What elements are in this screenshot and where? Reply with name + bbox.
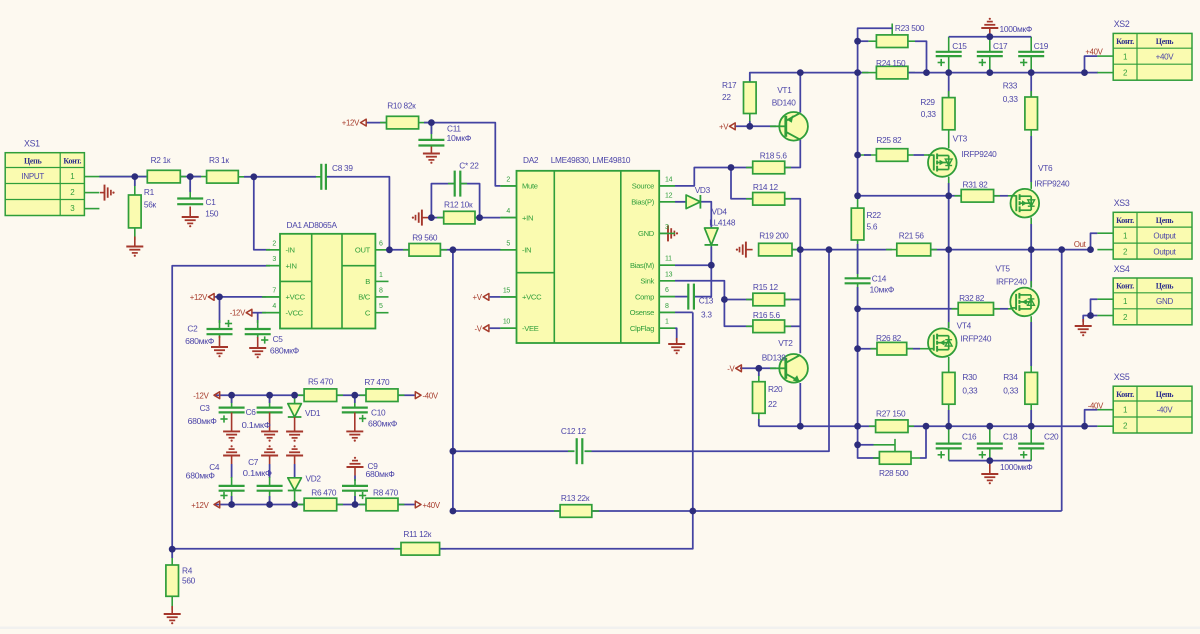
svg-text:VD1: VD1 <box>305 408 321 418</box>
svg-text:+V: +V <box>719 122 729 131</box>
svg-text:IRFP240: IRFP240 <box>996 277 1027 287</box>
svg-text:BD140: BD140 <box>772 97 797 107</box>
svg-text:R16 5.6: R16 5.6 <box>753 310 781 320</box>
svg-text:R7 470: R7 470 <box>364 377 390 387</box>
svg-text:3: 3 <box>272 256 276 263</box>
svg-text:R19 200: R19 200 <box>759 230 789 240</box>
svg-text:XS3: XS3 <box>1114 198 1130 208</box>
svg-text:R17: R17 <box>722 80 737 90</box>
svg-text:4: 4 <box>272 303 276 310</box>
svg-text:+VCC: +VCC <box>286 293 306 302</box>
svg-text:Mute: Mute <box>522 182 538 191</box>
svg-text:11: 11 <box>665 256 672 263</box>
svg-text:Конт.: Конт. <box>63 156 81 165</box>
svg-text:8: 8 <box>665 303 669 310</box>
svg-text:0.1мкФ: 0.1мкФ <box>242 420 271 430</box>
svg-text:VD3: VD3 <box>695 185 711 195</box>
svg-text:Output: Output <box>1153 247 1176 256</box>
svg-text:XS4: XS4 <box>1114 264 1130 274</box>
svg-text:+IN: +IN <box>522 213 533 222</box>
svg-text:+40V: +40V <box>423 501 441 510</box>
svg-text:Bias(P): Bias(P) <box>631 198 655 207</box>
svg-text:OUT: OUT <box>355 246 371 255</box>
svg-text:-40V: -40V <box>423 392 439 401</box>
svg-text:Output: Output <box>1153 231 1176 240</box>
svg-text:R26 82: R26 82 <box>876 333 902 343</box>
svg-text:1000мкФ: 1000мкФ <box>1000 24 1033 34</box>
svg-text:C13: C13 <box>699 296 714 306</box>
svg-text:0,33: 0,33 <box>921 109 937 119</box>
svg-text:680мкФ: 680мкФ <box>270 346 299 356</box>
svg-text:R29: R29 <box>920 97 935 107</box>
svg-text:C18: C18 <box>1003 432 1018 442</box>
svg-text:680мкФ: 680мкФ <box>186 470 215 480</box>
svg-text:-V: -V <box>727 364 735 373</box>
svg-text:VD2: VD2 <box>306 474 322 484</box>
svg-text:R11 12к: R11 12к <box>403 529 431 539</box>
svg-text:22: 22 <box>768 399 777 409</box>
svg-text:Sink: Sink <box>640 277 654 286</box>
svg-text:R31 82: R31 82 <box>963 180 989 190</box>
svg-text:C5: C5 <box>273 334 284 344</box>
svg-text:R2 1к: R2 1к <box>151 155 171 165</box>
svg-text:XS1: XS1 <box>24 139 40 149</box>
svg-text:10мкФ: 10мкФ <box>870 285 895 295</box>
svg-text:6: 6 <box>379 240 383 247</box>
svg-text:C14: C14 <box>872 274 887 284</box>
svg-text:680мкФ: 680мкФ <box>366 469 395 479</box>
svg-text:LME49830, LME49810: LME49830, LME49810 <box>551 155 631 165</box>
svg-text:R14 12: R14 12 <box>753 182 779 192</box>
svg-text:R3 1к: R3 1к <box>209 155 229 165</box>
svg-text:13: 13 <box>665 271 673 278</box>
svg-text:Out: Out <box>1074 240 1087 249</box>
svg-text:R24 150: R24 150 <box>876 58 906 68</box>
svg-text:R23 500: R23 500 <box>895 23 925 33</box>
svg-text:5: 5 <box>506 240 510 247</box>
svg-text:6: 6 <box>665 287 669 294</box>
svg-text:+12V: +12V <box>342 119 360 128</box>
svg-text:3.3: 3.3 <box>701 310 712 320</box>
svg-text:GND: GND <box>1156 297 1173 306</box>
svg-text:C6: C6 <box>246 407 257 417</box>
svg-text:C1: C1 <box>206 197 217 207</box>
svg-text:R4: R4 <box>182 566 193 576</box>
svg-text:560: 560 <box>182 576 196 586</box>
svg-text:Конт.: Конт. <box>1116 390 1134 399</box>
svg-text:22: 22 <box>722 92 731 102</box>
svg-text:1000мкФ: 1000мкФ <box>1000 462 1033 472</box>
svg-text:-VEE: -VEE <box>522 324 539 333</box>
svg-text:IRFP9240: IRFP9240 <box>962 149 998 159</box>
svg-text:-VCC: -VCC <box>286 308 304 317</box>
svg-text:7: 7 <box>272 288 276 295</box>
svg-text:C3: C3 <box>200 403 211 413</box>
svg-text:-IN: -IN <box>286 246 295 255</box>
svg-text:10мкФ: 10мкФ <box>447 133 472 143</box>
svg-text:R30: R30 <box>962 372 977 382</box>
svg-text:IRFP9240: IRFP9240 <box>1034 178 1070 188</box>
svg-text:Конт.: Конт. <box>1116 282 1134 291</box>
svg-text:C16: C16 <box>962 432 977 442</box>
svg-text:VT1: VT1 <box>777 85 792 95</box>
svg-text:680мкФ: 680мкФ <box>188 416 217 426</box>
svg-text:-12V: -12V <box>193 392 209 401</box>
svg-text:Цепь: Цепь <box>1156 282 1174 291</box>
svg-text:C2: C2 <box>187 324 198 334</box>
svg-text:+40V: +40V <box>1085 48 1103 57</box>
svg-text:0.1мкФ: 0.1мкФ <box>243 468 272 478</box>
svg-text:15: 15 <box>503 287 511 294</box>
svg-text:R1: R1 <box>144 187 155 197</box>
svg-text:Цепь: Цепь <box>1156 390 1174 399</box>
svg-text:150: 150 <box>205 208 219 218</box>
svg-text:-IN: -IN <box>522 246 531 255</box>
svg-text:R5 470: R5 470 <box>308 377 334 387</box>
svg-text:R6 470: R6 470 <box>311 488 337 498</box>
svg-text:VT4: VT4 <box>957 321 972 331</box>
svg-text:5: 5 <box>379 303 383 310</box>
svg-text:C15: C15 <box>952 41 967 51</box>
svg-text:0,33: 0,33 <box>962 386 978 396</box>
svg-text:R8 470: R8 470 <box>373 488 399 498</box>
svg-text:-12V: -12V <box>230 309 246 318</box>
svg-text:Конт.: Конт. <box>1116 37 1134 46</box>
svg-text:C19: C19 <box>1034 41 1049 51</box>
svg-text:12: 12 <box>665 192 673 199</box>
svg-text:GND: GND <box>638 229 655 238</box>
svg-text:5.6: 5.6 <box>867 221 878 231</box>
svg-text:C12 12: C12 12 <box>561 426 587 436</box>
svg-text:R15 12: R15 12 <box>753 282 779 292</box>
svg-text:B: B <box>365 277 370 286</box>
svg-text:+VCC: +VCC <box>522 293 542 302</box>
svg-text:C7: C7 <box>248 457 259 467</box>
svg-text:DA1 AD8065A: DA1 AD8065A <box>287 220 338 230</box>
svg-text:+IN: +IN <box>286 261 297 270</box>
svg-text:R32 82: R32 82 <box>959 293 985 303</box>
svg-text:8: 8 <box>379 288 383 295</box>
svg-text:ClpFlag: ClpFlag <box>630 324 654 333</box>
svg-text:C17: C17 <box>993 41 1008 51</box>
svg-text:R12 10к: R12 10к <box>444 200 473 210</box>
svg-text:+40V: +40V <box>1156 53 1175 62</box>
svg-text:+12V: +12V <box>190 293 208 302</box>
svg-text:R21 56: R21 56 <box>899 231 925 241</box>
svg-text:VD4: VD4 <box>712 207 728 217</box>
svg-text:R10 82к: R10 82к <box>387 100 416 110</box>
svg-text:Comp: Comp <box>635 292 654 301</box>
svg-text:680мкФ: 680мкФ <box>368 419 397 429</box>
svg-text:C8 39: C8 39 <box>332 163 353 173</box>
svg-text:Цепь: Цепь <box>24 156 42 165</box>
svg-text:R13 22к: R13 22к <box>561 493 590 503</box>
svg-text:-V: -V <box>474 324 482 333</box>
svg-text:56к: 56к <box>144 199 157 209</box>
svg-text:R22: R22 <box>867 210 882 220</box>
svg-text:R34: R34 <box>1003 372 1018 382</box>
svg-text:14: 14 <box>665 176 673 183</box>
svg-text:1: 1 <box>665 319 669 326</box>
svg-text:Source: Source <box>632 182 654 191</box>
svg-text:2: 2 <box>506 176 510 183</box>
svg-text:4: 4 <box>506 208 510 215</box>
svg-text:1: 1 <box>379 272 383 279</box>
svg-text:VT5: VT5 <box>995 263 1010 273</box>
svg-text:Osense: Osense <box>630 308 654 317</box>
svg-text:10: 10 <box>503 319 511 326</box>
svg-text:-40V: -40V <box>1157 405 1174 414</box>
svg-text:+12V: +12V <box>191 501 209 510</box>
svg-text:R9 560: R9 560 <box>412 232 438 242</box>
svg-text:XS2: XS2 <box>1114 19 1130 29</box>
svg-text:XS5: XS5 <box>1114 372 1130 382</box>
svg-text:INPUT: INPUT <box>21 172 44 181</box>
svg-text:Конт.: Конт. <box>1116 216 1134 225</box>
svg-text:IRFP240: IRFP240 <box>961 334 992 344</box>
svg-text:0,33: 0,33 <box>1003 94 1019 104</box>
svg-text:R28 500: R28 500 <box>879 468 909 478</box>
svg-text:0,33: 0,33 <box>1003 386 1019 396</box>
svg-text:2: 2 <box>272 240 276 247</box>
svg-text:BD139: BD139 <box>762 353 787 363</box>
svg-text:R25 82: R25 82 <box>876 135 902 145</box>
svg-text:+V: +V <box>473 293 483 302</box>
svg-text:C10: C10 <box>371 408 386 418</box>
svg-text:3: 3 <box>665 224 669 231</box>
svg-text:R20: R20 <box>768 384 783 394</box>
svg-text:VT2: VT2 <box>778 338 793 348</box>
svg-text:VT6: VT6 <box>1038 163 1053 173</box>
svg-text:VT3: VT3 <box>953 133 968 143</box>
svg-text:Bias(M): Bias(M) <box>630 261 655 270</box>
svg-text:R33: R33 <box>1003 81 1018 91</box>
svg-text:C20: C20 <box>1044 432 1059 442</box>
svg-text:Цепь: Цепь <box>1156 37 1174 46</box>
svg-text:Цепь: Цепь <box>1156 216 1174 225</box>
svg-text:LL4148: LL4148 <box>709 218 736 228</box>
svg-text:B/C: B/C <box>358 293 371 302</box>
svg-text:DA2: DA2 <box>523 155 539 165</box>
svg-text:-40V: -40V <box>1088 402 1104 411</box>
svg-text:R18 5.6: R18 5.6 <box>760 150 788 160</box>
svg-text:C* 22: C* 22 <box>459 161 479 171</box>
svg-text:C: C <box>365 308 371 317</box>
svg-text:680мкФ: 680мкФ <box>185 336 214 346</box>
svg-text:C11: C11 <box>447 124 461 134</box>
svg-text:R27 150: R27 150 <box>876 409 906 419</box>
